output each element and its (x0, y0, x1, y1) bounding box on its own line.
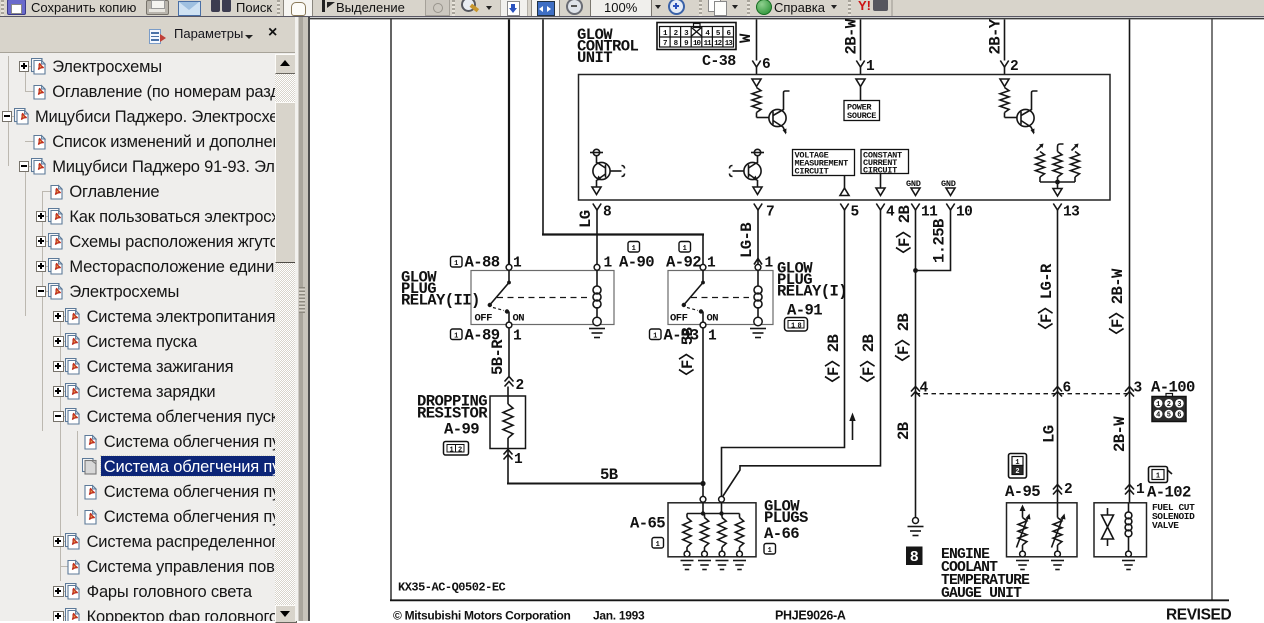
svg-text:4: 4 (920, 381, 929, 397)
pin 1 entry triangle (856, 79, 865, 87)
transistor Q3 (590, 149, 625, 194)
glow plug resistor 1 (683, 514, 691, 557)
A-100 name (1151, 379, 1195, 397)
glow plug resistor 4 (735, 514, 743, 557)
pin number 6 (762, 57, 770, 73)
svg-text:〈F〉LG-R: 〈F〉LG-R (1037, 263, 1056, 338)
A-102 connector icon (1149, 467, 1173, 483)
svg-text:A-102: A-102 (1147, 484, 1191, 502)
svg-text:7: 7 (766, 205, 774, 221)
engine coolant temperature gauge box (1007, 503, 1078, 557)
unit pin 7 (754, 204, 774, 221)
svg-text:1: 1 (707, 256, 716, 272)
svg-text:1: 1 (454, 332, 458, 340)
svg-text:1: 1 (683, 245, 687, 253)
label 2B-W (843, 18, 861, 54)
pin 1 chevron of A-99 (504, 450, 524, 469)
copyright (393, 609, 645, 623)
svg-text:UNIT: UNIT (577, 49, 612, 67)
A-95 connector icon (1009, 454, 1027, 479)
wire relay I to glow plugs (F 5B) (702, 328, 704, 484)
unit pin 13 (1053, 204, 1079, 221)
svg-text:A-92: A-92 (666, 254, 701, 272)
glow plugs box (668, 503, 756, 557)
wire pin 11 to ground (908, 214, 924, 536)
A-100 connector icon (1152, 394, 1186, 422)
connector A-100 dashed line (916, 393, 1130, 395)
thermistor 2 ground (1051, 561, 1064, 570)
svg-text:1.25B: 1.25B (931, 218, 949, 263)
A-100 pin 6 chevron (1053, 381, 1071, 397)
svg-text:LG-B: LG-B (738, 222, 756, 258)
svg-text:1: 1 (708, 329, 717, 345)
relay II coil ground (589, 329, 605, 338)
revised mark (1166, 607, 1231, 623)
page right border (1211, 19, 1213, 600)
GND pin 10 (941, 179, 956, 196)
svg-text:1: 1 (1015, 459, 1019, 467)
svg-text:1: 1 (656, 541, 660, 549)
label 5B (600, 466, 619, 484)
label F2B pin 5 (824, 333, 843, 391)
A-95 name (1005, 483, 1040, 501)
svg-text:13: 13 (1063, 205, 1079, 221)
thermistor 1 (1017, 505, 1031, 557)
A-102 name (1147, 484, 1191, 502)
connector A-92 (666, 242, 716, 272)
svg-text:W: W (737, 33, 755, 43)
resistor R5 (1071, 144, 1080, 183)
unit pin 4 (876, 204, 895, 221)
dropping resistor R6 box (490, 387, 526, 460)
svg-text:1: 1 (653, 332, 657, 340)
svg-text:1: 1 (791, 323, 795, 331)
relay II coil (593, 264, 601, 325)
svg-text:5B-R: 5B-R (489, 339, 507, 375)
valve pin 1 chevron (1125, 482, 1145, 498)
svg-text:1: 1 (632, 245, 636, 253)
svg-text:A-99: A-99 (444, 421, 479, 439)
svg-text:6: 6 (762, 57, 770, 73)
relay II title (401, 269, 480, 310)
svg-text:1: 1 (768, 547, 772, 555)
svg-text:LG: LG (577, 210, 595, 228)
svg-text:6: 6 (1177, 412, 1181, 420)
svg-text:8: 8 (910, 549, 919, 566)
svg-text:1: 1 (765, 256, 774, 272)
svg-text:1: 1 (513, 256, 522, 272)
glow plug relay II box (471, 271, 614, 325)
wire pin 7 to relay I coil (754, 214, 762, 265)
page bottom border (390, 599, 1229, 601)
unit pin 5 (840, 204, 858, 221)
svg-text:2: 2 (1064, 482, 1072, 498)
svg-text:© Mitsubishi Motors Corporatio: © Mitsubishi Motors Corporation (393, 609, 571, 622)
svg-text:LG: LG (1041, 425, 1059, 443)
glow plug ground 4 (733, 561, 746, 570)
label LG (pin 8) (577, 210, 595, 228)
svg-text:〈F〉2B: 〈F〉2B (824, 333, 843, 391)
svg-text:ON: ON (707, 313, 719, 325)
svg-text:1: 1 (1156, 401, 1160, 409)
svg-text:Jan. 1993: Jan. 1993 (593, 609, 645, 622)
wire to glow plug relay II terminal A-88 (508, 20, 510, 265)
relay II actuation dashed link (497, 297, 588, 299)
svg-text:5: 5 (851, 205, 859, 221)
connector A-88 (451, 254, 500, 272)
page top edge (308, 18, 1264, 20)
svg-text:REVISED: REVISED (1166, 607, 1231, 622)
resistor R3 (1036, 144, 1045, 183)
svg-text:CIRCUIT: CIRCUIT (795, 167, 829, 177)
connector A-93 (650, 327, 718, 345)
connector C-38 pin table (657, 23, 736, 50)
gauge pin 2 chevron (1053, 482, 1072, 498)
glow control unit title (577, 26, 639, 67)
svg-text:A-90: A-90 (619, 254, 654, 272)
svg-text:7: 7 (663, 40, 667, 48)
thermistor 1 ground (1016, 561, 1029, 570)
svg-text:6: 6 (1063, 381, 1071, 397)
unit pin 11 (911, 204, 938, 221)
svg-text:2: 2 (1010, 59, 1018, 75)
svg-text:2: 2 (458, 447, 462, 455)
svg-text:3: 3 (1177, 401, 1181, 409)
glow plug resistor 3 (718, 514, 726, 557)
wire 2B-W right side from top (1129, 20, 1131, 503)
label LG-B (pin 7) (738, 222, 756, 258)
relay I name A-91 (787, 302, 822, 320)
A-100 pin 3 chevron (1125, 381, 1142, 397)
drawing number KX35 (398, 581, 506, 595)
svg-text:5B: 5B (600, 466, 619, 484)
resistor R4 (1053, 144, 1064, 182)
solenoid coil L1 (1125, 503, 1132, 557)
svg-text:VALVE: VALVE (1152, 520, 1179, 531)
relay I coil ground (750, 329, 766, 338)
relay II switch (488, 264, 512, 328)
unit pin 10 (946, 204, 972, 221)
wire C-38 pin 1 (2B-W) (856, 20, 864, 75)
grounding point 8 marker (906, 547, 923, 567)
svg-text:8: 8 (798, 323, 802, 331)
svg-text:OFF: OFF (670, 313, 688, 325)
power source circuit block (844, 101, 880, 122)
relay I connector icon (785, 318, 808, 332)
svg-text:A-95: A-95 (1005, 483, 1040, 501)
svg-text:PHJE9026-A: PHJE9026-A (775, 609, 846, 622)
voltage measurement circuit block (793, 150, 855, 177)
svg-text:1: 1 (604, 256, 613, 272)
svg-text:1: 1 (1136, 482, 1145, 498)
svg-text:1: 1 (866, 59, 875, 75)
svg-text:11: 11 (921, 205, 938, 221)
label 2B (pin 11 below A-100) (895, 421, 913, 440)
label 2B-Y (987, 18, 1005, 54)
svg-text:4: 4 (886, 205, 895, 221)
A-100 pin 4 chevron (911, 381, 929, 397)
svg-text:RELAY(II): RELAY(II) (401, 292, 480, 310)
svg-text:〈F〉2B-W: 〈F〉2B-W (1108, 268, 1127, 343)
wire relay II to dropping resistor (5B-R) (505, 328, 514, 387)
wire pin 4 (723, 214, 881, 496)
constant current circuit block (861, 150, 909, 176)
relay I OFF ON labels (670, 313, 718, 325)
solenoid ground (1122, 561, 1135, 570)
connector A-65 (630, 515, 665, 549)
svg-text:OFF: OFF (475, 313, 493, 325)
svg-text:1: 1 (1156, 473, 1160, 481)
glow plug ground 3 (716, 561, 729, 570)
wire CC to pin 4 (876, 174, 885, 196)
transistor Q2 (1005, 91, 1038, 135)
fuel cut solenoid valve box (1094, 503, 1147, 557)
svg-text:GAUGE UNIT: GAUGE UNIT (941, 586, 1022, 602)
svg-text:2B-Y: 2B-Y (987, 18, 1005, 54)
svg-text:C-38: C-38 (702, 53, 736, 70)
svg-text:2B-W: 2B-W (1111, 416, 1129, 452)
label F2B pin 4 (859, 333, 878, 391)
pin 2 of A-99 (516, 378, 524, 394)
resistor R1 (pin 6) (752, 88, 761, 113)
wire VM to pin 5 (840, 176, 849, 196)
engine coolant temperature gauge unit title (941, 547, 1030, 602)
svg-text:1: 1 (454, 260, 458, 268)
wire pin 5 (722, 214, 845, 496)
pin 6 entry triangle (752, 79, 761, 87)
label 2B-W (below A-100) (1111, 416, 1129, 452)
fuel cut solenoid valve title (1152, 502, 1195, 531)
pin number 2 (1010, 59, 1018, 75)
wire from top to glow plug relay I (542, 20, 704, 265)
glow plug ground 1 (681, 561, 694, 570)
relay I actuation dashed link (691, 297, 749, 299)
pin 1 of A-88 (513, 256, 522, 272)
glow control unit box (579, 75, 1111, 201)
GND pin 11 (906, 179, 921, 196)
svg-text:4: 4 (1156, 412, 1160, 420)
label 5B-R (489, 339, 507, 375)
pin number 1 (866, 59, 875, 75)
unit pin 8 (593, 204, 611, 221)
direction arrow (849, 413, 855, 441)
solenoid valve symbol (1102, 508, 1114, 546)
glow plug resistor 2 (700, 514, 708, 557)
svg-text:3: 3 (1134, 381, 1142, 397)
transistor Q1 (757, 91, 790, 135)
label F 2B-W (1108, 268, 1127, 343)
svg-text:2B: 2B (895, 421, 913, 440)
relay I switch (682, 264, 706, 328)
wire pin 10 (1.25B fusible link) (917, 214, 951, 271)
svg-text:10: 10 (956, 205, 972, 221)
pin 2 entry triangle (1000, 79, 1009, 87)
glow plug relay I box (668, 271, 773, 325)
thermistor 2 (1052, 503, 1066, 557)
label F2B pin 11 lower (894, 312, 913, 370)
transistor Q4 (730, 149, 765, 194)
dropping resistor title (417, 393, 488, 439)
svg-text:RELAY(I): RELAY(I) (777, 283, 847, 301)
svg-text:2: 2 (1015, 468, 1019, 476)
relay I coil (754, 264, 762, 325)
svg-text:A-65: A-65 (630, 515, 665, 533)
wire C-38 pin 6 (W) (752, 20, 760, 75)
wire C-38 pin 2 (2B-Y) (1000, 20, 1008, 75)
glow plug ground 2 (698, 561, 711, 570)
svg-text:ON: ON (513, 313, 525, 325)
svg-text:〈F〉2B: 〈F〉2B (859, 333, 878, 391)
wire 5B to junction (507, 460, 706, 497)
svg-text:5: 5 (1167, 412, 1171, 420)
label F2B pin 11 upper (895, 204, 914, 262)
svg-text:2B-W: 2B-W (843, 18, 861, 54)
resistor bus junction (1040, 180, 1075, 196)
relay I title (777, 260, 847, 301)
svg-text:A-88: A-88 (465, 254, 500, 272)
label 1.25B (931, 218, 949, 263)
label F LG-R (1037, 263, 1056, 338)
svg-text:1: 1 (450, 447, 454, 455)
svg-text:1: 1 (514, 452, 523, 468)
svg-text:8: 8 (603, 205, 611, 221)
svg-text:A-66: A-66 (764, 525, 799, 543)
svg-text:〈F〉5B: 〈F〉5B (678, 326, 697, 384)
glow plugs title + A-66 (764, 498, 808, 555)
svg-text:SOURCE: SOURCE (847, 111, 876, 121)
connector A-90 (604, 242, 655, 272)
resistor R2 (pin 2) (1000, 88, 1009, 113)
connector A-89 (451, 327, 523, 345)
svg-text:〈F〉2B: 〈F〉2B (895, 204, 914, 262)
label W (737, 33, 755, 43)
wire to power source (860, 87, 862, 101)
label F 5B (678, 326, 697, 384)
relay II OFF ON labels (475, 313, 525, 325)
connector name C-38 (702, 53, 736, 70)
svg-text:〈F〉2B: 〈F〉2B (894, 312, 913, 370)
wire pin 8 to relay II coil (596, 214, 598, 264)
label LG (below A-100) (1041, 425, 1059, 443)
pin 1 label of relay I coil (765, 256, 774, 272)
svg-text:2: 2 (1167, 401, 1171, 409)
doc code PHJE9026-A (775, 609, 846, 623)
glow plugs terminals (700, 496, 724, 502)
glow plugs bus (687, 502, 740, 516)
wire pin 13 (1057, 214, 1059, 503)
svg-text:1: 1 (513, 329, 522, 345)
svg-text:KX35-AC-Q0502-EC: KX35-AC-Q0502-EC (398, 581, 506, 595)
connector icon A-99 (444, 442, 469, 456)
page left border (390, 19, 392, 600)
svg-text:2: 2 (516, 378, 524, 394)
